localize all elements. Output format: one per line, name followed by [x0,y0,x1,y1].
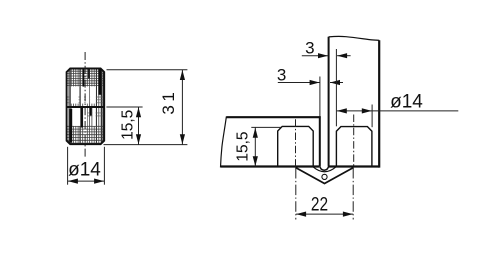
knurl white highlights top half [71,86,96,103]
cylinder middle line [65,106,106,108]
right cup centerline [353,115,355,168]
knurl top grid horizontals [66,71,105,85]
knurl white highlights bottom half [73,108,96,126]
dim ø14 (right figure) [371,105,373,128]
slot U-arc [320,165,329,170]
svg-text:15,5: 15,5 [234,132,251,162]
svg-text:ø14: ø14 [68,159,101,180]
vertical panel bottom edge [329,165,380,167]
dim 15,5 (left figure) [104,107,188,145]
slot left wall [319,116,321,166]
barrel arc [313,167,336,172]
vertical panel right face [378,40,380,167]
left panel bottom edge [221,165,320,167]
left cup [278,126,314,166]
svg-text:3: 3 [305,38,314,57]
dim 3 upper [335,49,337,126]
left panel break line [221,116,227,167]
svg-text:ø14: ø14 [390,91,423,112]
vertical panel top break line [329,36,380,40]
knurl partial horizontals near mid [66,97,105,116]
pivot circle [322,174,327,179]
dim ø14 (left figure) [68,147,105,185]
left panel top edge [226,116,320,118]
svg-text:22: 22 [311,194,328,215]
vertical panel left face [328,37,330,166]
dim 15,5 (right figure) [251,126,281,128]
dim 31 (left figure) [107,70,188,145]
left cup centerline [295,119,297,167]
right cup [336,127,372,167]
svg-text:31: 31 [159,92,178,115]
cylinder outline [67,69,105,145]
knurl dark bars [69,68,101,142]
svg-text:3: 3 [277,65,286,84]
dim 3 lower [319,77,321,117]
dim 22 [295,168,297,220]
cylinder centerline [84,52,86,158]
knurl heavy verticals [70,68,102,145]
knurl vertical lines [69,68,103,145]
V marking [296,168,354,184]
svg-text:15,5: 15,5 [120,110,137,140]
knurl bottom grid horizontals [66,126,105,143]
